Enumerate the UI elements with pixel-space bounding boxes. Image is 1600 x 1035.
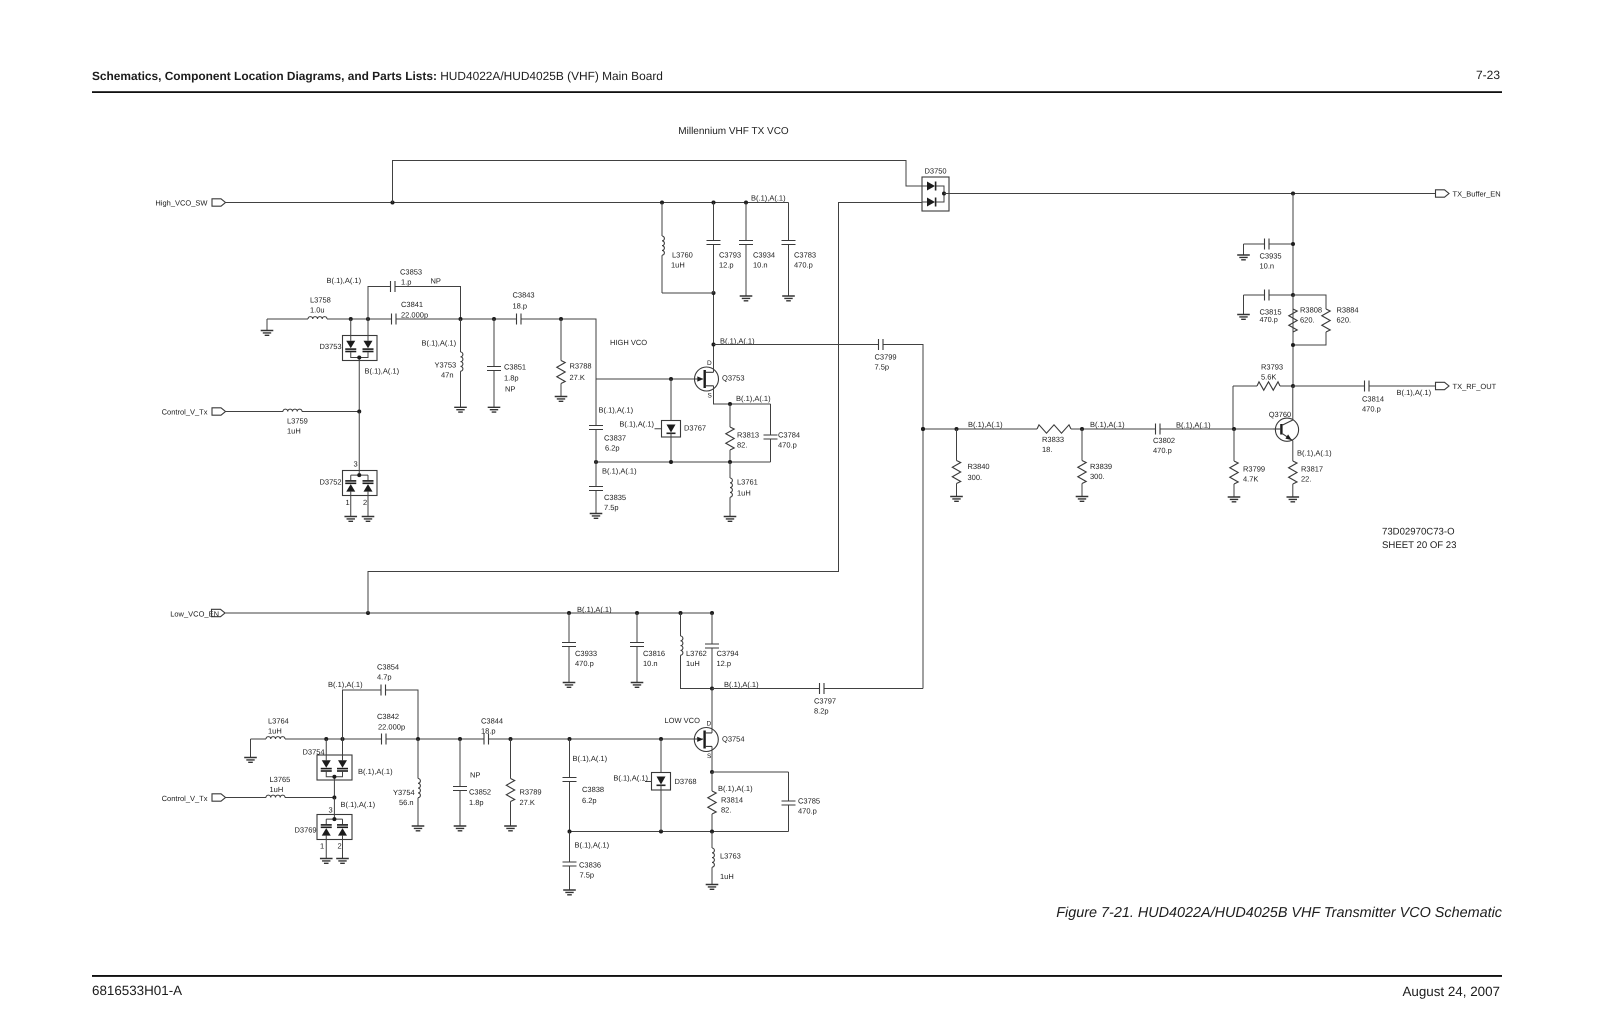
junction low lower a — [568, 830, 572, 834]
capacitor C3852 (NP) — [453, 737, 491, 826]
capacitor C3853 (NP) — [368, 268, 461, 320]
svg-text:22.000p: 22.000p — [401, 311, 428, 320]
svg-text:470.p: 470.p — [575, 659, 594, 668]
net B(.1),A(.1) base rail 2 — [1090, 420, 1125, 429]
svg-text:56.n: 56.n — [399, 798, 414, 807]
wire High_VCO_SW rail — [226, 202, 789, 204]
svg-text:L3760: L3760 — [672, 251, 693, 260]
svg-text:C3852: C3852 — [469, 788, 491, 797]
resistor R3884 — [1293, 295, 1359, 345]
wire low vco lower rail — [570, 831, 713, 833]
wire buffer base rail — [923, 428, 1276, 430]
svg-text:Q3753: Q3753 — [722, 374, 745, 383]
resistor R3799 — [1230, 427, 1265, 497]
svg-text:L3763: L3763 — [720, 851, 741, 860]
svg-text:1.8p: 1.8p — [504, 374, 519, 383]
svg-text:1: 1 — [320, 841, 324, 850]
resistor R3814 — [708, 772, 743, 832]
output flag TX_Buffer_EN — [1436, 190, 1501, 199]
capacitor C3784 — [764, 404, 801, 462]
input flag High_VCO_SW — [155, 199, 225, 208]
wire gate rail (Q3753) — [596, 378, 703, 380]
junction Control low — [332, 796, 336, 800]
svg-text:C3837: C3837 — [604, 434, 626, 443]
transistor Q3754 — [694, 721, 745, 760]
diode D3768 — [645, 737, 697, 832]
ground (C3935) — [1237, 255, 1250, 260]
svg-text:C3784: C3784 — [778, 431, 800, 440]
ground (Y3754) — [412, 826, 425, 831]
svg-text:C3799: C3799 — [875, 353, 897, 362]
wire L3760 bottom link — [662, 292, 714, 294]
capacitor C3835 — [589, 462, 626, 513]
capacitor C3842 — [377, 712, 405, 745]
svg-text:470.p: 470.p — [778, 441, 797, 450]
ground (R3817) — [1287, 497, 1300, 502]
svg-text:High_VCO_SW: High_VCO_SW — [155, 199, 208, 208]
svg-text:10.n: 10.n — [643, 659, 658, 668]
svg-text:1uH: 1uH — [686, 659, 700, 668]
svg-text:C3816: C3816 — [643, 649, 665, 658]
svg-text:1uH: 1uH — [720, 872, 734, 881]
crystal Y3754 — [393, 739, 420, 826]
svg-text:Schematics, Component Location: Schematics, Component Location Diagrams,… — [92, 69, 663, 83]
net B(.1),A(.1) at D3754 — [358, 767, 393, 776]
svg-text:1: 1 — [346, 498, 350, 507]
wire riser to top rail and D3750 — [393, 161, 923, 203]
capacitor C3854 — [343, 663, 419, 740]
svg-text:C3843: C3843 — [513, 291, 535, 300]
svg-text:12.p: 12.p — [717, 659, 732, 668]
net B(.1),A(.1) at C3853 — [327, 276, 362, 285]
wire Q3753 source rail — [714, 386, 771, 404]
inductor L3765 — [226, 775, 335, 798]
ground (C3851) — [488, 407, 501, 412]
svg-text:L3765: L3765 — [270, 775, 291, 784]
net B(.1),A(.1) low drain — [724, 680, 759, 689]
net B(.1),A(.1) at C3838 — [573, 754, 608, 763]
svg-text:D3750: D3750 — [925, 167, 947, 176]
text HIGH VCO — [610, 338, 647, 347]
inductor L3762 — [679, 611, 713, 689]
svg-text:Y3753: Y3753 — [435, 361, 457, 370]
wire Q3760 emitter — [1292, 441, 1294, 461]
svg-text:18.p: 18.p — [513, 302, 528, 311]
junction D3754 b — [341, 737, 345, 741]
svg-text:7.5p: 7.5p — [875, 363, 890, 372]
svg-text:B(.1),A(.1): B(.1),A(.1) — [1090, 420, 1125, 429]
svg-text:C3835: C3835 — [604, 493, 626, 502]
wire Q3753 drain — [713, 293, 715, 372]
inductor L3763 — [712, 832, 741, 885]
svg-text:C3933: C3933 — [575, 649, 597, 658]
svg-text:B(.1),A(.1): B(.1),A(.1) — [358, 767, 393, 776]
svg-text:C3836: C3836 — [579, 861, 601, 870]
svg-text:D3754: D3754 — [303, 748, 325, 757]
svg-text:300.: 300. — [1090, 472, 1105, 481]
svg-text:NP: NP — [470, 771, 480, 780]
ground (C3816) — [631, 683, 644, 688]
varactor D3769 — [295, 798, 353, 859]
ground (C3934) — [740, 296, 753, 301]
ground (D3752 pin2) — [362, 517, 375, 522]
ground (C3815) — [1237, 315, 1250, 320]
junction buffer bias tap — [1291, 192, 1295, 196]
capacitor C3841 — [392, 300, 429, 325]
capacitor C3793 — [707, 201, 742, 294]
svg-text:R3839: R3839 — [1090, 462, 1112, 471]
capacitor C3816 — [630, 611, 665, 682]
svg-text:1.p: 1.p — [401, 278, 411, 287]
net B(.1),A(.1) at Y3753 — [422, 339, 457, 348]
wire Q3754 source — [711, 746, 713, 772]
svg-text:1.8p: 1.8p — [469, 798, 484, 807]
svg-text:D: D — [707, 360, 712, 367]
svg-text:HIGH VCO: HIGH VCO — [610, 338, 647, 347]
svg-text:1uH: 1uH — [671, 261, 685, 270]
svg-text:4.7K: 4.7K — [1243, 475, 1258, 484]
svg-text:C3802: C3802 — [1153, 436, 1175, 445]
wire Q3760 collector — [1292, 386, 1294, 420]
input flag Control_V_Tx (low) — [162, 794, 226, 803]
svg-text:B(.1),A(.1): B(.1),A(.1) — [422, 339, 457, 348]
header text — [92, 68, 1500, 83]
ground (C3933) — [563, 683, 576, 688]
svg-text:R3799: R3799 — [1243, 465, 1265, 474]
net B(.1),A(.1) low rail — [577, 605, 612, 614]
wire Q3754 drain — [711, 689, 713, 733]
svg-text:L3764: L3764 — [268, 717, 289, 726]
svg-text:R3814: R3814 — [721, 796, 743, 805]
svg-text:L3761: L3761 — [737, 478, 758, 487]
svg-text:SHEET 20 OF 23: SHEET 20 OF 23 — [1382, 540, 1456, 551]
junction drain tap — [712, 343, 716, 347]
svg-text:L3758: L3758 — [310, 296, 331, 305]
svg-text:L3762: L3762 — [686, 649, 707, 658]
svg-text:R3833: R3833 — [1042, 435, 1064, 444]
footer rule — [92, 975, 1502, 977]
junction riser at base rail — [921, 427, 925, 431]
svg-text:C3934: C3934 — [753, 251, 775, 260]
input flag Low_VCO_EN — [170, 609, 225, 618]
svg-text:C3853: C3853 — [400, 268, 422, 277]
net B(.1),A(.1) base rail 3 — [1176, 420, 1211, 429]
svg-text:S: S — [707, 753, 712, 760]
svg-text:C3842: C3842 — [377, 712, 399, 721]
svg-text:Q3754: Q3754 — [722, 735, 745, 744]
junction D3753 b — [366, 317, 370, 321]
svg-text:3: 3 — [354, 460, 358, 469]
svg-text:1uH: 1uH — [737, 489, 751, 498]
net B(.1),A(.1) top rail — [751, 194, 786, 203]
svg-text:6.2p: 6.2p — [582, 796, 597, 805]
ground (L3764) — [244, 739, 257, 762]
capacitor C3783 — [782, 203, 817, 296]
junction Q3754 source — [710, 770, 714, 774]
svg-text:B(.1),A(.1): B(.1),A(.1) — [968, 420, 1003, 429]
svg-text:18.: 18. — [1042, 445, 1052, 454]
ground (D3769 pin1) — [320, 859, 333, 864]
svg-text:D3767: D3767 — [684, 424, 706, 433]
junction drain top — [712, 291, 716, 295]
net B(.1),A(.1) at C3836 — [575, 841, 610, 850]
wire Low_VCO_EN rail — [225, 612, 712, 614]
svg-text:Q3760: Q3760 — [1269, 410, 1292, 419]
svg-text:B(.1),A(.1): B(.1),A(.1) — [341, 800, 376, 809]
junction lower rail c — [728, 460, 732, 464]
svg-text:73D02970C73-O: 73D02970C73-O — [1382, 527, 1455, 538]
svg-text:August 24, 2007: August 24, 2007 — [1402, 984, 1500, 999]
junction R3813 top — [728, 402, 732, 406]
svg-text:470.p: 470.p — [1153, 446, 1172, 455]
svg-text:7.5p: 7.5p — [580, 871, 595, 880]
svg-text:620.: 620. — [1337, 316, 1352, 325]
capacitor C3933 — [562, 611, 597, 682]
svg-text:C3844: C3844 — [481, 717, 503, 726]
wire TX_Buffer_EN — [944, 193, 1436, 195]
ground (R3839) — [1076, 497, 1089, 502]
svg-text:Figure 7-21. HUD4022A/HUD4025B: Figure 7-21. HUD4022A/HUD4025B VHF Trans… — [1056, 905, 1503, 921]
svg-text:R3808: R3808 — [1300, 306, 1322, 315]
svg-text:B(.1),A(.1): B(.1),A(.1) — [751, 194, 786, 203]
svg-text:Y3754: Y3754 — [393, 788, 415, 797]
capacitor C3844 — [481, 717, 503, 745]
svg-text:27.K: 27.K — [570, 373, 585, 382]
junction at D3750 output — [942, 192, 946, 196]
svg-text:D3752: D3752 — [320, 478, 342, 487]
wire low riser / link to D3750 — [368, 203, 922, 614]
wire high vco lower rail — [596, 461, 771, 463]
svg-text:C3785: C3785 — [798, 797, 820, 806]
svg-text:TX_Buffer_EN: TX_Buffer_EN — [1453, 190, 1501, 199]
svg-text:6816533H01-A: 6816533H01-A — [92, 983, 182, 998]
svg-text:3: 3 — [329, 806, 333, 815]
transistor Q3753 — [694, 360, 745, 399]
junction lower rail b — [669, 460, 673, 464]
output flag TX_RF_OUT — [1436, 382, 1497, 391]
varactor D3752 — [320, 412, 378, 517]
wire C3797 link — [712, 688, 923, 690]
figure caption — [1056, 905, 1503, 921]
svg-text:L3759: L3759 — [287, 417, 308, 426]
svg-text:7.5p: 7.5p — [604, 503, 619, 512]
svg-text:6.2p: 6.2p — [605, 444, 620, 453]
input flag Control_V_Tx (high) — [162, 408, 226, 417]
junction Control high — [357, 410, 361, 414]
junction D3753 a — [349, 317, 353, 321]
ground (D3752 pin1) — [344, 517, 357, 522]
svg-text:TX_RF_OUT: TX_RF_OUT — [1453, 382, 1497, 391]
junction (C3935) — [1291, 242, 1295, 246]
svg-text:C3838: C3838 — [582, 785, 604, 794]
svg-text:Millennium VHF TX VCO: Millennium VHF TX VCO — [678, 126, 789, 137]
junction lower rail a — [594, 460, 598, 464]
svg-text:C3851: C3851 — [504, 363, 526, 372]
junction at riser — [391, 201, 395, 205]
capacitor C3851 (NP) — [487, 317, 526, 407]
net B(.1),A(.1) at C3837 — [599, 406, 634, 415]
label pin 3 (D3769) — [329, 806, 333, 815]
wire low resonator rail — [251, 738, 704, 740]
transistor Q3760 — [1269, 410, 1299, 442]
capacitor C3843 — [513, 291, 535, 325]
net B(.1),A(.1) base rail 1 — [968, 420, 1003, 429]
wire TX_RF_OUT — [1293, 385, 1436, 387]
inductor L3759 — [226, 409, 360, 435]
svg-text:300.: 300. — [968, 473, 983, 482]
resistor R3813 — [726, 404, 759, 462]
svg-text:B(.1),A(.1): B(.1),A(.1) — [575, 841, 610, 850]
diode D3767 — [655, 379, 707, 462]
svg-text:Control_V_Tx: Control_V_Tx — [162, 794, 208, 803]
ground (L3763) — [706, 885, 719, 890]
ground (C3852) — [454, 826, 467, 831]
svg-text:7-23: 7-23 — [1476, 68, 1500, 82]
svg-text:B(.1),A(.1): B(.1),A(.1) — [619, 420, 654, 429]
ground (R3799) — [1228, 497, 1241, 502]
wire source rail to C3785 — [712, 771, 789, 773]
svg-text:C3783: C3783 — [794, 251, 816, 260]
svg-text:27.K: 27.K — [520, 798, 535, 807]
capacitor C3794 — [705, 611, 739, 689]
net B(.1),A(.1) below D3754 — [341, 800, 376, 809]
wire drain tap to C3799 and riser — [714, 345, 924, 689]
svg-text:R3840: R3840 — [968, 462, 990, 471]
svg-text:C3794: C3794 — [717, 649, 739, 658]
inductor L3758 — [308, 296, 331, 320]
svg-text:8.2p: 8.2p — [814, 707, 829, 716]
svg-text:D3769: D3769 — [295, 826, 317, 835]
ground (D3769 pin2) — [336, 859, 349, 864]
ground (R3788) — [555, 397, 568, 402]
junction base rail left — [921, 427, 925, 431]
svg-text:22.: 22. — [1301, 475, 1311, 484]
capacitor C3836 — [563, 832, 602, 890]
net B(.1),A(.1) drain tap — [720, 337, 755, 346]
capacitor C3802 — [1153, 424, 1175, 456]
svg-text:620.: 620. — [1300, 316, 1315, 325]
junction D3767 tap — [669, 377, 673, 381]
svg-text:R3789: R3789 — [520, 788, 542, 797]
svg-text:10.n: 10.n — [753, 261, 768, 270]
resistor R3840 — [952, 427, 989, 497]
svg-text:B(.1),A(.1): B(.1),A(.1) — [724, 680, 759, 689]
resistor R3817 — [1289, 461, 1324, 498]
capacitor C3837 — [589, 379, 626, 462]
svg-text:C3841: C3841 — [401, 300, 423, 309]
svg-text:B(.1),A(.1): B(.1),A(.1) — [328, 680, 363, 689]
ground (L3761) — [724, 517, 737, 522]
svg-text:10.n: 10.n — [1260, 262, 1275, 271]
svg-text:B(.1),A(.1): B(.1),A(.1) — [613, 774, 648, 783]
capacitor C3838 — [563, 737, 605, 832]
net B(.1),A(.1) at D3767 — [619, 420, 654, 429]
capacitor C3815 — [1244, 290, 1294, 324]
svg-text:82.: 82. — [721, 806, 731, 815]
resistor R3788 — [557, 317, 592, 396]
varactor D3753 — [320, 319, 378, 412]
svg-text:470.p: 470.p — [794, 261, 813, 270]
svg-text:470.p: 470.p — [1260, 315, 1278, 324]
svg-text:B(.1),A(.1): B(.1),A(.1) — [718, 784, 753, 793]
svg-text:C3935: C3935 — [1260, 252, 1282, 261]
ground (Y3753) — [454, 407, 467, 412]
inductor L3764 — [266, 717, 289, 740]
svg-text:D3753: D3753 — [320, 342, 342, 351]
inductor L3761 — [730, 462, 758, 517]
svg-text:2: 2 — [363, 498, 367, 507]
svg-text:LOW VCO: LOW VCO — [665, 716, 701, 725]
svg-text:R3817: R3817 — [1301, 465, 1323, 474]
svg-text:Control_V_Tx: Control_V_Tx — [162, 408, 208, 417]
svg-text:B(.1),A(.1): B(.1),A(.1) — [599, 406, 634, 415]
svg-text:B(.1),A(.1): B(.1),A(.1) — [1397, 388, 1432, 397]
inductor L3760 — [660, 201, 693, 294]
svg-text:1uH: 1uH — [287, 427, 301, 436]
svg-text:D: D — [707, 721, 712, 728]
svg-text:4.7p: 4.7p — [377, 673, 392, 682]
wire buffer bias riser — [1292, 194, 1294, 387]
net B(.1),A(.1) at C3814 — [1397, 388, 1432, 397]
label pin 3 (D3752) — [354, 460, 358, 469]
svg-text:C3793: C3793 — [719, 251, 741, 260]
junction C3853 return — [459, 317, 463, 321]
junction C3854 return — [416, 737, 420, 741]
svg-text:B(.1),A(.1): B(.1),A(.1) — [1176, 420, 1211, 429]
svg-text:C3814: C3814 — [1362, 395, 1384, 404]
svg-text:R3788: R3788 — [570, 362, 592, 371]
svg-text:82.: 82. — [737, 441, 747, 450]
net B(.1),A(.1) below D3753 — [365, 367, 400, 376]
resistor R3793 — [1233, 363, 1293, 391]
ground (L3758) — [261, 319, 274, 335]
footer text — [92, 983, 1500, 999]
wire R3793 left riser — [1232, 386, 1234, 429]
svg-text:B(.1),A(.1): B(.1),A(.1) — [1297, 448, 1332, 457]
svg-text:R3813: R3813 — [737, 431, 759, 440]
ground (R3840) — [950, 497, 963, 502]
svg-text:NP: NP — [431, 277, 441, 286]
resistor R3808 — [1289, 295, 1322, 345]
crystal Y3753 — [435, 319, 463, 407]
net B(.1),A(.1) at emitter — [1297, 448, 1332, 457]
text LOW VCO — [665, 716, 701, 725]
capacitor C3797 — [814, 683, 836, 716]
capacitor C3814 — [1362, 381, 1384, 414]
svg-text:R3884: R3884 — [1337, 306, 1359, 315]
resistor R3839 — [1078, 427, 1112, 497]
net B(.1),A(.1) at D3768 — [613, 774, 648, 783]
junction R3814 bottom — [710, 830, 714, 834]
svg-text:1uH: 1uH — [270, 785, 284, 794]
svg-text:2: 2 — [338, 841, 342, 850]
svg-text:S: S — [708, 392, 713, 399]
svg-text:B(.1),A(.1): B(.1),A(.1) — [602, 467, 637, 476]
ground (C3783) — [782, 296, 795, 301]
svg-text:1uH: 1uH — [268, 727, 282, 736]
svg-text:1.0u: 1.0u — [310, 306, 325, 315]
junction low riser — [366, 611, 370, 615]
title — [678, 126, 789, 137]
ground (C3836) — [563, 890, 576, 895]
svg-text:22.000p: 22.000p — [378, 723, 405, 732]
svg-text:B(.1),A(.1): B(.1),A(.1) — [577, 605, 612, 614]
svg-text:B(.1),A(.1): B(.1),A(.1) — [573, 754, 608, 763]
capacitor C3934 — [739, 201, 775, 296]
resistor R3833 — [1037, 425, 1071, 454]
svg-text:470.p: 470.p — [798, 807, 817, 816]
junction D3754 a — [324, 737, 328, 741]
